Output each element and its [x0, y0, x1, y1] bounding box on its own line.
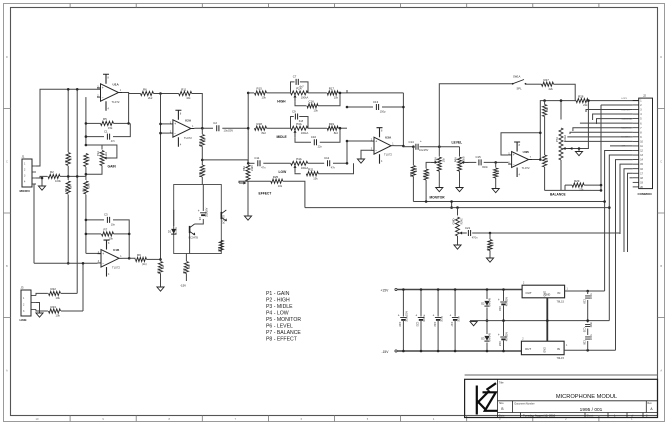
wire high row a [248, 92, 254, 94]
wire fb lower vertical b [85, 195, 87, 254]
svg-text:LOP1: LOP1 [622, 98, 628, 100]
svg-text:470n: 470n [472, 235, 478, 239]
junction t5 [339, 92, 342, 95]
junction m3 [587, 99, 590, 102]
resistor R16 [182, 262, 191, 274]
wire cap C22 top lead [420, 290, 422, 317]
svg-text:MICRO: MICRO [20, 189, 31, 193]
svg-text:+: + [415, 314, 417, 318]
svg-text:10k: 10k [334, 96, 339, 100]
resistor R5 [101, 117, 114, 130]
svg-text:3k3: 3k3 [546, 107, 549, 112]
junction r4 [586, 319, 589, 322]
svg-text:R17: R17 [329, 87, 335, 91]
svg-text:Tuesday, August 12, 2010: Tuesday, August 12, 2010 [523, 414, 556, 418]
svg-text:R19: R19 [329, 122, 335, 126]
wire U1B out b [129, 258, 135, 259]
svg-text:TL072: TL072 [384, 153, 392, 157]
resistor R4 [84, 154, 91, 167]
capacitor C17 [450, 314, 461, 328]
capacitor C11 [254, 156, 266, 170]
wire R24b stub [495, 162, 497, 167]
wire U1B fb res row [86, 233, 101, 235]
resistor R18 [255, 122, 267, 135]
svg-text:100n: 100n [457, 316, 460, 322]
svg-text:R6: R6 [143, 87, 147, 91]
switch SW1A SPL [512, 75, 527, 91]
junction m2 [412, 145, 415, 148]
wire pin12 drop [605, 150, 633, 291]
svg-text:COMMON: COMMON [638, 192, 652, 196]
wire low row d [333, 141, 347, 163]
svg-text:C1: C1 [104, 129, 108, 133]
wire mic aux vertical [34, 184, 36, 263]
potentiometer P4A [291, 157, 309, 172]
wire high cap loop b [300, 82, 308, 93]
title label [499, 380, 504, 384]
svg-text:OUT: OUT [525, 347, 531, 351]
wire R22 to vert [61, 292, 77, 294]
wire pot bottom [560, 160, 562, 190]
svg-text:IN: IN [558, 291, 561, 295]
resistor R6 [141, 87, 154, 100]
wire monitor-effect link [451, 202, 453, 208]
svg-text:P1 - GAIN: P1 - GAIN [266, 291, 290, 297]
svg-text:BL/GR: BL/GR [175, 227, 178, 234]
svg-text:10k: 10k [278, 184, 283, 188]
junction b4 [560, 99, 563, 102]
wire pin4 wire [593, 114, 633, 120]
svg-text:+: + [102, 252, 104, 256]
capacitor C23 [433, 314, 444, 328]
capacitor C7 [293, 75, 305, 89]
svg-text:Title: Title [499, 380, 504, 384]
svg-text:BC547B: BC547B [189, 237, 199, 240]
svg-text:LINE: LINE [20, 318, 27, 322]
wire U3A fb top [346, 90, 348, 93]
junction n15 [85, 233, 88, 236]
junction n12 [159, 123, 162, 126]
svg-text:22k: 22k [549, 87, 554, 91]
potentiometer P8A [239, 165, 254, 185]
wire mute out [185, 254, 187, 262]
label EFFECT [259, 192, 272, 196]
wire cap C23 top lead [437, 290, 439, 317]
terminal -15V [382, 350, 398, 354]
svg-text:Size: Size [499, 402, 504, 405]
svg-text:24dB: 24dB [251, 165, 254, 171]
svg-text:U2A: U2A [185, 118, 192, 122]
wire cap C23 bottom lead [437, 321, 439, 351]
wire C18 lead [503, 341, 505, 352]
wire mid wiper down [295, 137, 311, 142]
wire balance top wire [540, 101, 576, 133]
junction f1 [456, 206, 459, 209]
wire high cap loop [291, 82, 295, 93]
ground line [36, 313, 43, 317]
svg-text:100u: 100u [440, 316, 443, 322]
wire mid wiper down b [320, 128, 340, 142]
svg-text:C: C [6, 160, 8, 164]
resistor R23 [49, 305, 61, 318]
wire line gnd stub [36, 303, 40, 314]
regulator U5 GND label [544, 347, 547, 353]
capacitor C19 [583, 293, 593, 304]
wire reg cap chain d [587, 341, 589, 350]
connector J2 COMMON [633, 93, 653, 196]
svg-text:R25: R25 [409, 172, 413, 177]
wire U3B out [532, 159, 540, 161]
svg-text:U1A: U1A [113, 82, 120, 86]
title text [556, 394, 617, 400]
junction n3 [67, 262, 70, 265]
capacitor C21 [465, 226, 478, 240]
junction j201 [603, 200, 606, 203]
label C2 value [224, 129, 234, 133]
junction t7 [346, 106, 349, 109]
svg-text:79L15: 79L15 [557, 356, 565, 360]
ground mic [38, 186, 45, 190]
potentiometer P2A [291, 87, 309, 102]
junction d2 [486, 350, 489, 353]
wire level pot bottom [459, 171, 461, 187]
wire fad bottom [457, 236, 459, 245]
wire pin11 wire [610, 145, 633, 147]
wire effect wiper row [239, 181, 271, 183]
svg-text:R21: R21 [308, 168, 314, 172]
svg-text:D2: D2 [481, 302, 485, 306]
resistor R27 [542, 78, 554, 91]
wire reg1 IN wire [565, 290, 605, 292]
junction t2 [247, 127, 250, 130]
capacitor C20 [398, 311, 409, 327]
wire R11 to fb [192, 94, 203, 129]
wire U1B out [123, 257, 129, 259]
junction p2 [502, 319, 505, 322]
label Q2 [223, 215, 226, 224]
svg-text:HIGH: HIGH [277, 100, 286, 104]
svg-text:MICROPHONE MODUL: MICROPHONE MODUL [556, 394, 617, 400]
wire U3A -in [347, 140, 371, 142]
svg-text:+: + [450, 314, 452, 318]
svg-text:R15: R15 [257, 87, 263, 91]
svg-text:47n: 47n [111, 139, 116, 143]
wire R28 to pin1 [588, 100, 639, 102]
junction C23b [437, 350, 440, 353]
wire pin18 stub [630, 177, 633, 179]
wire U1B fb res row b [114, 233, 130, 235]
wire C1 row b [113, 123, 130, 136]
wire U3A fb cap row [347, 106, 373, 108]
svg-text:+: + [198, 209, 200, 213]
svg-text:10k: 10k [262, 96, 267, 100]
junction n6 [159, 92, 162, 95]
svg-text:C3: C3 [104, 213, 108, 217]
wire mid cap loop b [299, 117, 308, 129]
wire reg1 GND bold [546, 298, 548, 341]
junction m8 [494, 161, 497, 164]
wire monitor wiper b [425, 180, 427, 202]
svg-text:D3: D3 [481, 337, 485, 341]
junction n13 [201, 127, 204, 130]
connector pin labels [622, 98, 633, 148]
svg-text:P4 - LOW: P4 - LOW [266, 310, 289, 316]
svg-text:R14: R14 [217, 247, 221, 252]
junction n2 [67, 175, 70, 178]
op-amp U2A [169, 110, 194, 147]
junction t1 [247, 92, 250, 95]
svg-text:100u/25V: 100u/25V [406, 311, 409, 322]
junction d1 [486, 288, 489, 291]
resistor R30 [543, 155, 550, 167]
svg-text:B: B [501, 407, 503, 411]
svg-text:22k: 22k [579, 188, 584, 192]
junction t10 [402, 145, 405, 148]
junction f2 [489, 232, 492, 235]
svg-text:100n: 100n [590, 334, 593, 340]
wire C16-C18 link [503, 306, 505, 337]
wire Q1 collector up [195, 219, 204, 224]
wiper arrow P7A [569, 147, 573, 150]
wire R24 stub b [489, 251, 491, 259]
svg-text:C15: C15 [476, 155, 482, 159]
junction C20t [402, 288, 405, 291]
wire D2-D3 link [486, 308, 488, 335]
capacitor C2 [213, 121, 219, 131]
junction n16 [128, 233, 131, 236]
wire low row a [248, 162, 254, 164]
junction C17t [454, 288, 457, 291]
svg-text:1M: 1M [491, 243, 494, 246]
title block grid [498, 379, 658, 417]
svg-text:BALANCE: BALANCE [550, 192, 566, 196]
resistor R1 [64, 153, 73, 166]
resistor R14 [217, 240, 223, 252]
wire wiper gnd stub [578, 149, 580, 152]
transistor Q2 [221, 210, 227, 221]
capacitor C26 [583, 334, 593, 345]
svg-text:22n: 22n [318, 145, 323, 149]
wire fb chain vertical [201, 128, 203, 134]
svg-text:+: + [433, 314, 435, 318]
wire C4 lead [202, 185, 204, 212]
wire -15V rail [397, 350, 521, 352]
wire cap C22 bottom lead [420, 321, 422, 351]
svg-text:GAIN: GAIN [108, 165, 117, 169]
svg-text:10k: 10k [56, 296, 61, 300]
potentiometer P1A [96, 151, 111, 166]
date text [523, 414, 556, 418]
svg-text:R9: R9 [137, 253, 141, 257]
svg-text:C9: C9 [292, 109, 296, 113]
wire U1A out [122, 93, 129, 124]
junction m4 [578, 147, 581, 150]
svg-text:-15V: -15V [180, 284, 186, 288]
wire mid row b [267, 127, 291, 129]
wire gain wiper link [102, 145, 117, 158]
svg-text:P2 - HIGH: P2 - HIGH [266, 297, 290, 303]
wire U3A fb top b [347, 92, 403, 94]
resistor R11 [179, 87, 192, 100]
wire high to bus [338, 92, 347, 94]
resistor R3 [64, 181, 73, 194]
wire pin15 drop [620, 164, 633, 234]
svg-text:D1: D1 [168, 230, 172, 234]
capacitor C16 [498, 297, 509, 312]
connector J1 MICRO [20, 155, 37, 194]
wire U3A fb cap row b [382, 106, 403, 108]
junction b6 [600, 189, 603, 192]
svg-text:100kA: 100kA [301, 96, 309, 100]
capacitor C14 [416, 144, 418, 150]
svg-text:C14: C14 [409, 140, 415, 144]
svg-text:TL072: TL072 [112, 266, 120, 270]
svg-text:−: − [102, 96, 104, 100]
op-amp U3B [508, 142, 532, 177]
wire D3 lead [486, 343, 488, 352]
capacitor C4 [198, 207, 209, 221]
junction t3 [247, 162, 250, 165]
junction C20b [402, 350, 405, 353]
wire U2A +in bias [161, 132, 170, 134]
svg-text:+: + [513, 153, 515, 157]
svg-text:R2: R2 [50, 170, 54, 174]
wire pin13 drop [609, 155, 632, 321]
potentiometer P5A [430, 157, 445, 171]
wire fad wiper out [466, 232, 468, 234]
junction n8 [127, 122, 130, 125]
svg-text:15k: 15k [108, 126, 113, 130]
junction t9 [346, 140, 349, 143]
svg-text:-15V: -15V [382, 350, 390, 354]
wire mid vertical [189, 233, 191, 254]
junction n5 [76, 175, 79, 178]
svg-text:R5: R5 [103, 117, 107, 121]
svg-text:MONITOR: MONITOR [430, 195, 446, 199]
wire pin16 drop [624, 169, 633, 252]
capacitor C1 [104, 129, 116, 143]
junction n9 [85, 135, 88, 138]
wire low wiper down [295, 172, 301, 173]
terminal +15V [381, 288, 398, 292]
ground R24 [486, 258, 493, 262]
wire fb top b [114, 122, 129, 124]
svg-text:P7 - BALANCE: P7 - BALANCE [266, 330, 301, 336]
capacitor C9 [292, 109, 304, 123]
svg-text:C10: C10 [311, 135, 317, 139]
junction n7 [85, 122, 88, 125]
svg-text:R24E: R24E [461, 218, 464, 225]
junction r2 [546, 319, 549, 322]
svg-text:10k: 10k [56, 314, 61, 318]
wire divider wire C [67, 195, 69, 264]
svg-text:R8: R8 [82, 189, 86, 193]
svg-text:SW1A: SW1A [513, 75, 521, 79]
capacitor C13 [373, 100, 386, 114]
svg-text:P6A: P6A [454, 157, 458, 162]
svg-text:C23: C23 [433, 322, 437, 327]
junction mic gnd [41, 177, 44, 180]
resistor R19 [327, 122, 338, 135]
svg-text:R13: R13 [198, 172, 202, 177]
diode D1 [168, 227, 178, 234]
ground R10 [157, 287, 164, 291]
label HIGH [277, 100, 286, 104]
wire pin3 wire [586, 110, 633, 112]
wire R10 lead [160, 259, 162, 261]
svg-text:P6 - LEVEL: P6 - LEVEL [266, 324, 293, 330]
svg-text:Document Number: Document Number [515, 403, 535, 406]
wire R23 to vert [61, 310, 83, 312]
resistor R16b [307, 100, 318, 113]
label BALANCE [550, 192, 566, 196]
wire R29 row b [584, 184, 601, 186]
junction p3 [502, 350, 505, 353]
wire U2A out row [194, 127, 213, 129]
wire U1B fb top b [113, 220, 129, 258]
resistor R7 [102, 228, 114, 241]
wire tone left bus [247, 93, 249, 163]
junction m6 [450, 200, 453, 203]
svg-text:10u/25V: 10u/25V [419, 149, 429, 152]
svg-text:8k2: 8k2 [262, 131, 267, 135]
wire gain bottom [86, 166, 102, 175]
wire level wiper out [469, 161, 477, 163]
wire pin10 wire [565, 140, 633, 142]
wire high wiper down [295, 102, 307, 106]
wire low wiper down b [318, 163, 353, 173]
svg-text:of: of [631, 414, 633, 418]
svg-text:P4A: P4A [296, 157, 302, 161]
wire pot top feed [560, 101, 562, 120]
svg-text:C11: C11 [254, 156, 259, 160]
svg-text:J2: J2 [643, 93, 646, 97]
svg-text:R25: R25 [273, 175, 279, 179]
wire divider wire A [67, 89, 69, 152]
wire high row c [308, 92, 327, 94]
wire effect feed [202, 160, 248, 162]
svg-text:LEVEL: LEVEL [452, 141, 463, 145]
wire vertical to R22 [76, 89, 78, 293]
wire R2 to divider [60, 175, 86, 177]
wire line pin3 row [36, 310, 48, 312]
wire R24 stub [489, 233, 491, 239]
potentiometer P6A [454, 156, 469, 171]
mute circuit box [174, 185, 222, 254]
svg-text:+: + [498, 333, 500, 337]
junction d3 [486, 319, 489, 322]
svg-text:P5 - MONITOR: P5 - MONITOR [266, 317, 301, 323]
wire gain top [86, 145, 102, 150]
junction n4 [76, 88, 79, 91]
capacitor C3 [104, 213, 116, 227]
svg-text:78L15: 78L15 [557, 300, 565, 304]
resistor R26b [492, 168, 501, 178]
diode D2 [481, 297, 491, 306]
svg-text:1N4148: 1N4148 [488, 332, 491, 341]
svg-text:+: + [398, 314, 400, 318]
resistor R10 [156, 262, 165, 274]
svg-text:C22: C22 [416, 322, 420, 327]
svg-text:C16: C16 [309, 100, 315, 104]
junction n17 [85, 219, 88, 222]
wire pin6 wire [580, 122, 633, 124]
svg-text:C13: C13 [373, 100, 379, 104]
regulator U5 79L15 [521, 339, 568, 361]
wire line pin1 row [36, 293, 48, 295]
wire spl to R27 [526, 83, 542, 85]
svg-text:47n: 47n [261, 166, 266, 170]
